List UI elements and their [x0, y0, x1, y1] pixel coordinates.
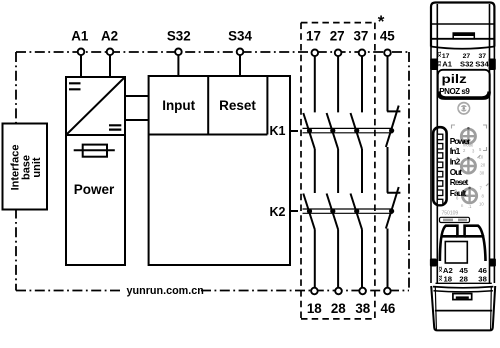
svg-text:17: 17 — [306, 28, 321, 43]
svg-text:K2: K2 — [270, 205, 286, 219]
svg-text:Input: Input — [162, 98, 195, 113]
svg-text:pilz: pilz — [442, 73, 467, 86]
svg-text:A1: A1 — [442, 60, 452, 69]
svg-text:20: 20 — [481, 163, 486, 168]
svg-text:K1: K1 — [270, 124, 286, 138]
svg-text:18: 18 — [444, 275, 453, 284]
svg-text:38: 38 — [478, 275, 487, 284]
svg-text:30: 30 — [480, 171, 485, 176]
svg-text:mode: mode — [463, 143, 474, 148]
svg-text:Power: Power — [74, 182, 115, 197]
svg-text:46: 46 — [380, 301, 395, 316]
svg-text:37: 37 — [353, 28, 368, 43]
svg-text:Out: Out — [450, 167, 463, 177]
svg-text:750109: 750109 — [442, 211, 459, 217]
svg-text:S34: S34 — [475, 60, 489, 69]
svg-text:X4: X4 — [438, 275, 443, 281]
svg-text:X3: X3 — [437, 60, 442, 66]
svg-text:28: 28 — [331, 301, 346, 316]
svg-text:28: 28 — [459, 275, 468, 284]
svg-text:Reset: Reset — [450, 177, 469, 187]
svg-text:A1: A1 — [71, 28, 89, 43]
svg-text:X2: X2 — [438, 266, 443, 272]
svg-text:PNOZ s9: PNOZ s9 — [439, 87, 470, 96]
svg-text:S32: S32 — [167, 28, 191, 43]
svg-text:yunrun.com.cn: yunrun.com.cn — [127, 285, 204, 297]
svg-text:*: * — [378, 12, 385, 31]
svg-text:38: 38 — [355, 301, 370, 316]
svg-text:S34: S34 — [228, 28, 252, 43]
svg-text:A2: A2 — [101, 28, 118, 43]
svg-text:27: 27 — [330, 28, 345, 43]
svg-text:10: 10 — [479, 155, 484, 160]
svg-text:Reset: Reset — [219, 98, 256, 113]
svg-text:X1: X1 — [437, 51, 442, 57]
svg-text:S32: S32 — [460, 60, 474, 69]
svg-text:10: 10 — [479, 202, 484, 207]
svg-text:18: 18 — [307, 301, 322, 316]
